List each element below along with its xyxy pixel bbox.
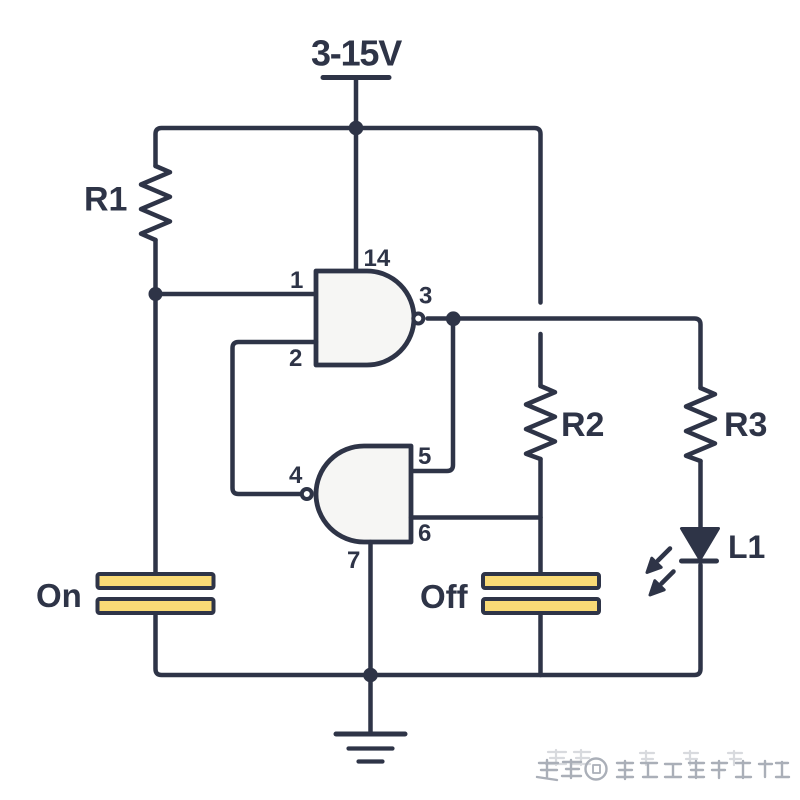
LED L1 cathode bar — [682, 559, 717, 564]
ground symbol — [336, 734, 405, 762]
svg-text:Off: Off — [420, 578, 469, 615]
svg-text:On: On — [36, 577, 82, 614]
svg-text:L1: L1 — [728, 529, 765, 565]
node pin1 junction — [149, 287, 163, 301]
wire gate1 output to R3 drop — [428, 319, 701, 389]
svg-text:14: 14 — [364, 245, 391, 272]
wire pin 14 stem — [354, 128, 359, 271]
svg-text:R1: R1 — [84, 181, 127, 219]
node ground junction — [363, 668, 378, 683]
power rail bar — [323, 75, 389, 80]
bubble U1B output — [302, 489, 312, 499]
touch pad On plate 1 — [98, 574, 214, 588]
bubble U1A output — [413, 314, 423, 324]
wire R2 upper — [538, 334, 543, 386]
LED arrow 1 — [647, 549, 670, 573]
wire bottom rail — [156, 565, 701, 675]
LED L1 triangle — [682, 529, 719, 560]
LED arrow 2 — [650, 572, 674, 596]
node output junction — [446, 311, 461, 326]
lighter back layer offset up-right — [546, 750, 742, 765]
touch pad Off plate 1 — [483, 574, 599, 588]
watermark approximation (overlapping gray/white CJK watermark band) — [537, 750, 789, 780]
wire Off pad lower — [538, 616, 543, 676]
svg-text:3-15V: 3-15V — [311, 33, 402, 74]
resistor R3 — [686, 388, 715, 461]
resistor R2 — [526, 386, 555, 459]
resistor R1 — [141, 166, 170, 240]
wire ground stem — [368, 675, 373, 734]
node power junction — [349, 121, 364, 136]
svg-text:3: 3 — [419, 283, 432, 310]
wire R2 lower to Off pad — [538, 459, 543, 573]
nand gate U1A body (pins 1,2,3,14) — [316, 271, 414, 365]
wire R1 bottom to On pad — [153, 240, 158, 572]
wire power stem — [354, 79, 359, 128]
wire output down to pin 5 — [411, 319, 453, 472]
svg-text:4: 4 — [289, 462, 303, 489]
svg-text:2: 2 — [289, 345, 302, 372]
touch pad On plate 2 — [98, 599, 214, 613]
svg-text:7: 7 — [347, 547, 360, 574]
svg-text:5: 5 — [418, 443, 431, 470]
wire pin 7 stem — [368, 542, 373, 675]
wire R3 lower to LED — [698, 461, 703, 529]
svg-text:R2: R2 — [561, 406, 604, 444]
wire pin 1 — [156, 292, 317, 297]
wire feedback pin4 to pin2 — [233, 342, 317, 494]
wire pin 6 to R2 branch — [411, 515, 541, 520]
darker shadow layer of white text — [537, 759, 789, 781]
svg-text:R3: R3 — [724, 406, 767, 444]
wire top rail with left and right drops — [156, 128, 541, 303]
nand gate U1B body mirrored (pins 4,5,6,7) — [316, 446, 411, 542]
svg-text:1: 1 — [290, 267, 303, 294]
svg-text:6: 6 — [418, 520, 431, 547]
touch pad Off plate 2 — [483, 599, 599, 613]
